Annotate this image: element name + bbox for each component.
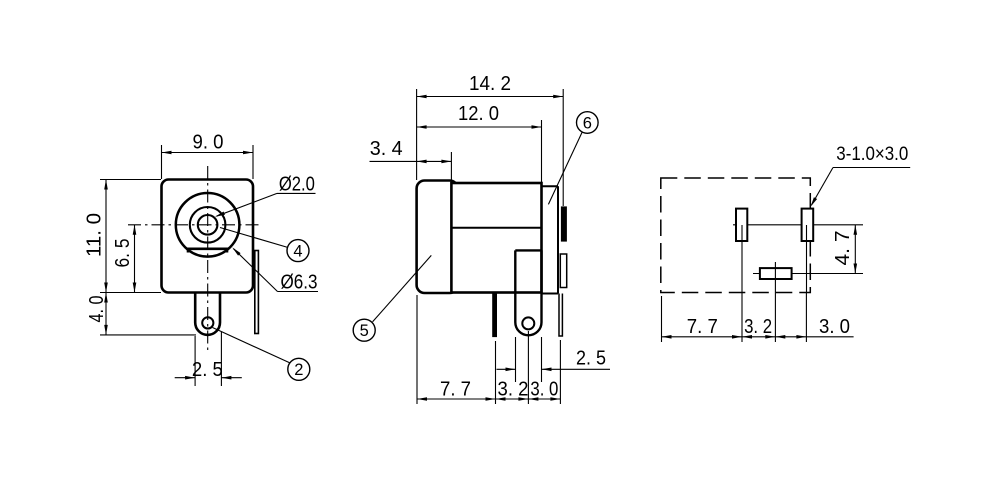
footprint left pad centerline — [741, 225, 743, 342]
svg-text:6. 5: 6. 5 — [111, 239, 134, 268]
balloon 5 leader — [373, 255, 432, 321]
front view tab hole — [202, 317, 213, 328]
dim 4.0 line with arrows — [105, 293, 107, 335]
svg-text:2. 5: 2. 5 — [576, 347, 606, 370]
svg-text:14. 2: 14. 2 — [469, 72, 511, 95]
front view barrel inner circle — [190, 207, 226, 243]
svg-text:4. 0: 4. 0 — [85, 296, 108, 323]
side bottom dim line 7.7 / 3.2 / 3.0 — [417, 398, 560, 400]
svg-text:Ø2.0: Ø2.0 — [279, 173, 315, 196]
dim 14.2 line with arrows — [417, 96, 564, 98]
footprint body outline dashed — [661, 178, 811, 293]
side view front flange plate — [542, 185, 559, 187]
front view horizontal centerline — [128, 224, 262, 226]
front view right side flange tab — [255, 251, 259, 334]
dim 6.5 line with arrows — [134, 225, 136, 293]
svg-text:12. 0: 12. 0 — [458, 102, 499, 125]
svg-text:5: 5 — [360, 322, 369, 340]
side view center tab with rounded end — [515, 250, 541, 335]
dim 14.2 extension lines — [416, 89, 418, 180]
footprint right pad extension to dim — [805, 292, 807, 342]
side view lower lug outline — [560, 254, 566, 288]
dim 12.0 line with arrows — [417, 126, 542, 128]
front view barrel opening circle Dia 6.3 — [176, 193, 240, 257]
dim 2.5 lines with outside arrows — [175, 377, 195, 379]
side view rear cap 3.4 wide — [417, 181, 458, 294]
side view body parting line — [451, 227, 541, 229]
footprint bottom dim line 7.7 / 3.2 / 3.0 — [662, 336, 743, 338]
footprint middle pad 3.0x1.0 — [760, 268, 792, 279]
dim 4.0 extension line at tab bottom — [100, 334, 196, 336]
side view front pin outline — [559, 294, 562, 337]
side view bottom extension lines — [416, 295, 418, 404]
side view top solder lug filled — [562, 207, 567, 241]
dim 2.5 extension lines under tab — [194, 336, 196, 386]
balloon 4 leader — [220, 228, 288, 248]
dim 11.0 extension lines — [100, 179, 161, 181]
footprint middle pad centerline vertical — [774, 262, 776, 342]
dim 3.4 extension line — [450, 152, 452, 182]
footprint right pad 1.0x3.0 — [802, 209, 814, 241]
dim 4.7 line with arrows — [854, 225, 856, 274]
front view body (9.0 x 11.0 housing) — [162, 180, 254, 293]
svg-text:7. 7: 7. 7 — [687, 315, 718, 338]
svg-text:Ø6.3: Ø6.3 — [281, 270, 318, 293]
svg-text:4. 7: 4. 7 — [831, 231, 854, 266]
dim 9.0 line with arrows — [162, 152, 254, 154]
balloon 2 callout — [288, 358, 310, 380]
balloon 4 callout — [287, 240, 309, 262]
dim 2.5 side lines with outside arrows — [497, 368, 516, 370]
dim 11.0 line with arrows — [105, 180, 107, 293]
balloon 5 callout — [353, 319, 375, 341]
svg-text:2: 2 — [294, 361, 303, 379]
balloon 6 leader — [548, 132, 582, 204]
svg-text:3. 2: 3. 2 — [744, 315, 772, 338]
svg-text:2. 5: 2. 5 — [192, 358, 223, 381]
side view rear pin filled — [493, 293, 497, 337]
front view vertical centerline — [207, 166, 209, 350]
footprint pin row centerline — [733, 224, 863, 226]
dim 12.0 extension line — [541, 120, 543, 182]
footprint left pad 1.0x3.0 — [736, 209, 747, 241]
footprint right pad centerline — [806, 225, 808, 292]
front view center pin circle Dia 2.0 — [198, 215, 218, 235]
footprint middle pad centerline horizontal — [753, 273, 863, 275]
svg-text:3. 0: 3. 0 — [819, 315, 850, 338]
svg-text:3. 4: 3. 4 — [370, 137, 403, 160]
svg-text:3-1.0×3.0: 3-1.0×3.0 — [836, 144, 908, 165]
balloon 6 callout — [577, 112, 599, 134]
svg-text:3. 2: 3. 2 — [498, 378, 529, 401]
svg-text:3. 0: 3. 0 — [530, 378, 558, 401]
balloon 2 leader — [213, 328, 290, 363]
footprint left extension line — [661, 296, 663, 342]
svg-text:6: 6 — [583, 114, 592, 132]
side view main body — [451, 183, 541, 293]
svg-text:9. 0: 9. 0 — [193, 130, 224, 153]
svg-text:11. 0: 11. 0 — [83, 213, 106, 257]
side view tab hole — [522, 317, 534, 329]
dim 9.0 extension lines — [161, 145, 163, 179]
dim 3.4 line with leader to text — [370, 160, 452, 162]
svg-text:4: 4 — [293, 243, 302, 261]
front view bottom solder tab — [195, 293, 220, 335]
svg-text:7. 7: 7. 7 — [440, 378, 471, 401]
front view contact spring flat in barrel — [188, 249, 227, 253]
